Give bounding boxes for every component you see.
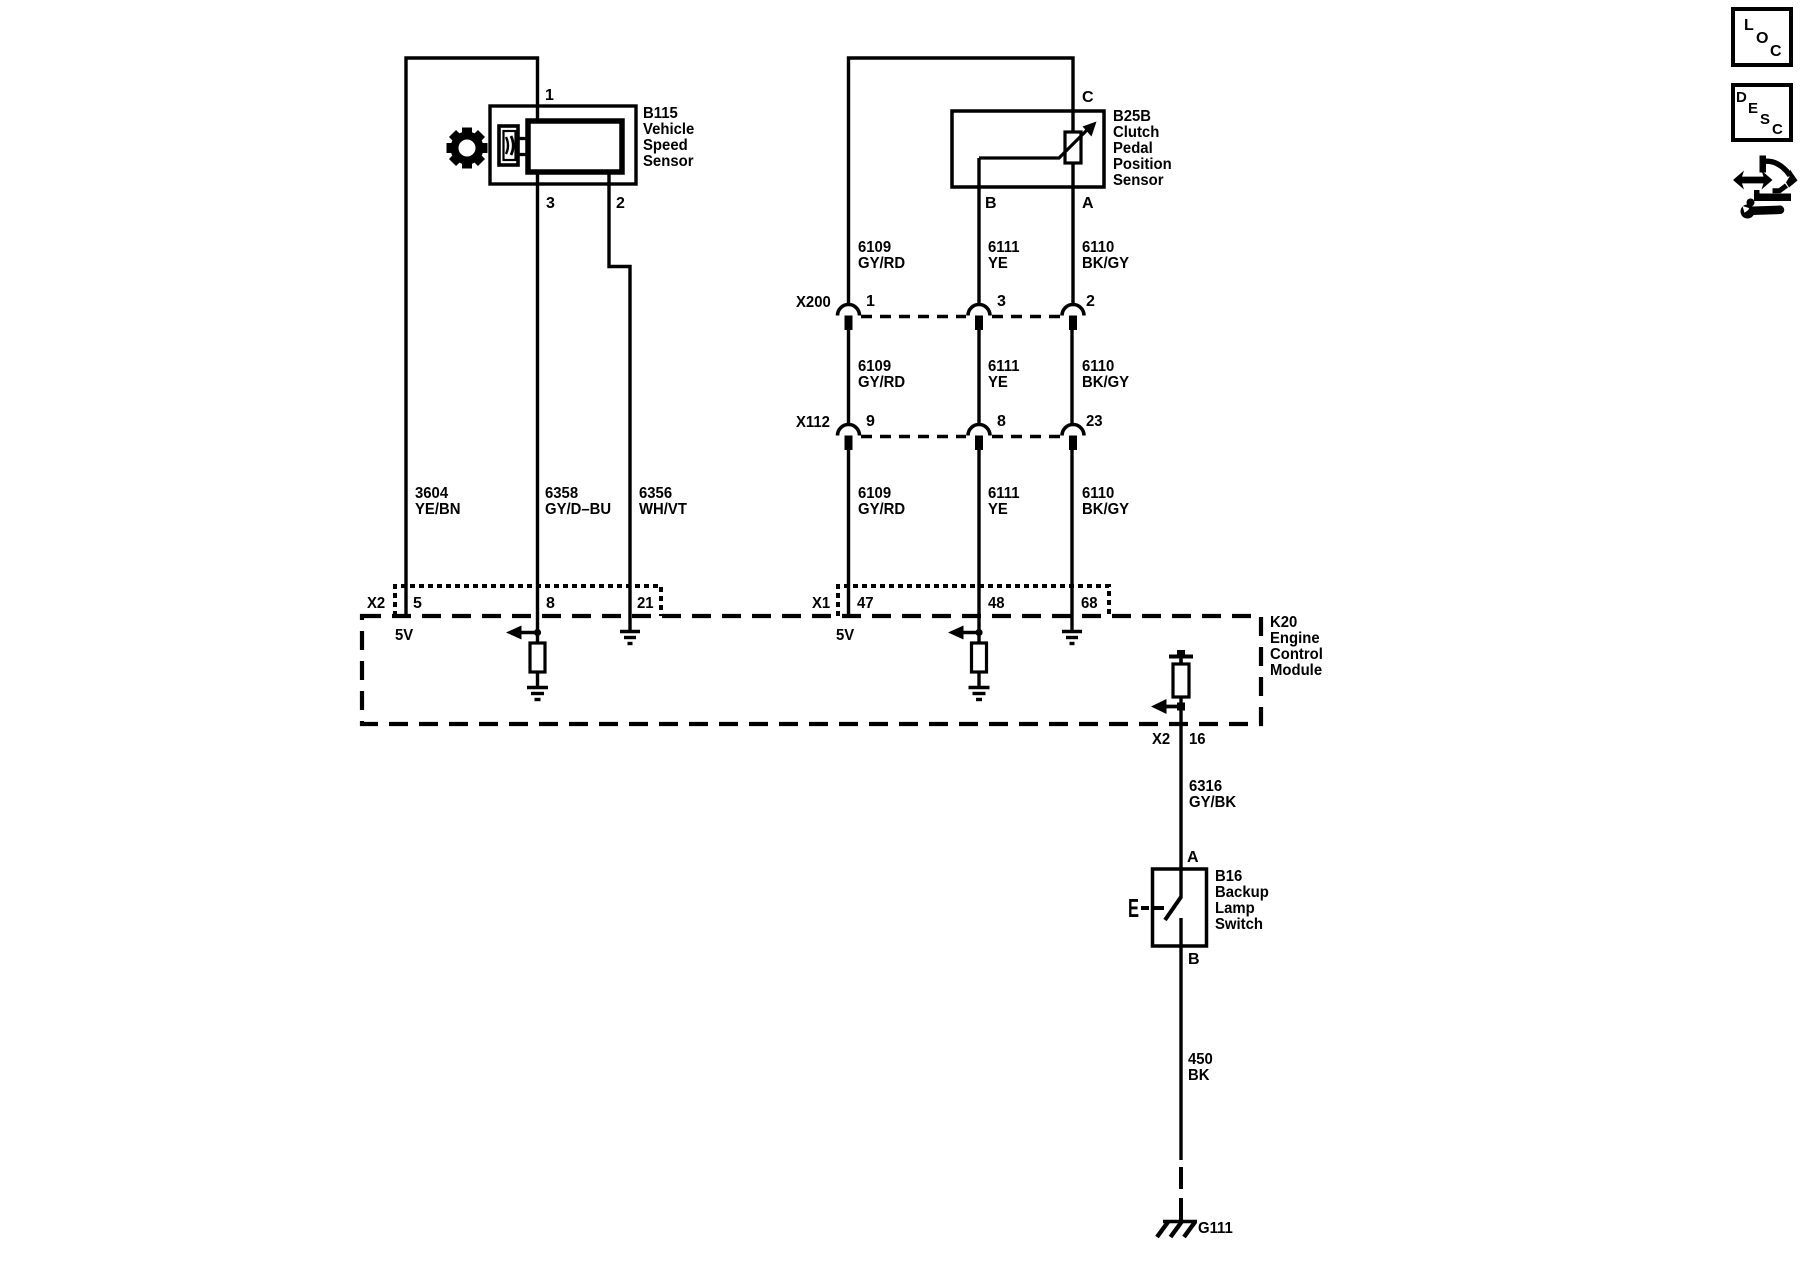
wire A below sensor [1071, 163, 1074, 304]
chassis ground G111 [1157, 1222, 1197, 1238]
label B115 Vehicle Speed Sensor [643, 105, 694, 170]
svg-text:C: C [1082, 89, 1094, 106]
label B25B Clutch Pedal Position Sensor [1113, 108, 1172, 189]
svg-text:B115: B115 [643, 105, 678, 122]
wire label 6111 YE (row 2) [988, 358, 1020, 391]
svg-text:Pedal: Pedal [1113, 140, 1153, 157]
svg-text:WH/VT: WH/VT [639, 501, 687, 518]
svg-text:6111: 6111 [988, 358, 1020, 375]
svg-text:YE: YE [988, 255, 1008, 272]
svg-text:21: 21 [637, 595, 654, 612]
svg-text:K20: K20 [1270, 614, 1297, 631]
wire 3 (B115 pin 3 to ECM X2-8) [536, 172, 539, 643]
wire 6110 segment X200-X112 [1070, 330, 1073, 424]
svg-text:Vehicle: Vehicle [643, 121, 694, 138]
svg-text:Module: Module [1270, 662, 1322, 679]
svg-text:6111: 6111 [988, 239, 1020, 256]
svg-text:X2: X2 [367, 595, 385, 612]
svg-text:Sensor: Sensor [643, 153, 694, 170]
svg-text:YE: YE [988, 501, 1008, 518]
ECM X2 connector strip (dotted) [395, 586, 661, 616]
svg-text:GY/D–BU: GY/D–BU [545, 501, 611, 518]
svg-text:2: 2 [1086, 293, 1095, 310]
signal arrow below resistor [1151, 699, 1185, 714]
svg-text:Sensor: Sensor [1113, 172, 1164, 189]
connector X200 pin 1 [838, 305, 860, 330]
svg-text:5V: 5V [395, 627, 413, 644]
svg-text:GY/RD: GY/RD [858, 501, 905, 518]
connector X112 pin 23 [1062, 425, 1084, 450]
svg-text:GY/RD: GY/RD [858, 255, 905, 272]
svg-text:B: B [1188, 951, 1200, 968]
wire: B115 supply loop (top-left) [406, 58, 538, 616]
svg-text:3: 3 [546, 195, 555, 212]
svg-text:5: 5 [413, 595, 422, 612]
wire label 6109 GY/RD (row 1) [858, 239, 905, 272]
svg-text:6109: 6109 [858, 485, 891, 502]
B25B sensor box [952, 111, 1104, 187]
svg-text:BK/GY: BK/GY [1082, 374, 1129, 391]
wire 6109 segment X112-X1 [847, 450, 850, 616]
resistor (backup lamp driver) [1173, 664, 1189, 697]
svg-text:Control: Control [1270, 646, 1323, 663]
wire label 6111 YE (row 1) [988, 239, 1020, 272]
wire label 6316 GY/BK [1189, 778, 1237, 811]
svg-text:16: 16 [1189, 731, 1206, 748]
svg-text:9: 9 [866, 413, 875, 430]
svg-text:8: 8 [997, 413, 1006, 430]
ground symbol at X2-21 [620, 616, 640, 644]
B16 Backup Lamp Switch box [1153, 869, 1207, 946]
connector X200 pin 3 [968, 305, 990, 330]
svg-text:8: 8 [546, 595, 555, 612]
ECM X1 connector strip (dotted) [838, 586, 1109, 616]
switch lower contact wire [1179, 918, 1182, 1160]
internal supply tap (backup lamp driver) [1169, 650, 1193, 664]
svg-text:YE: YE [988, 374, 1008, 391]
navigation icon: outline arrow [1754, 156, 1798, 202]
svg-text:6109: 6109 [858, 358, 891, 375]
wire resistor to ground (X1-48) [977, 672, 980, 686]
navigation icon: wrench [1741, 199, 1781, 219]
wire label 6109 GY/RD (row 3) [858, 485, 905, 518]
svg-text:GY/BK: GY/BK [1189, 794, 1237, 811]
svg-text:6316: 6316 [1189, 778, 1222, 795]
svg-text:C: C [1770, 43, 1782, 60]
svg-text:BK/GY: BK/GY [1082, 501, 1129, 518]
svg-text:B: B [985, 195, 997, 212]
wire 2 (B115 pin 2 to ECM X2-21) [609, 172, 630, 616]
svg-text:D: D [1736, 89, 1747, 106]
svg-text:6109: 6109 [858, 239, 891, 256]
gear icon [447, 128, 488, 169]
wire label 6111 YE (row 3) [988, 485, 1020, 518]
svg-text:1: 1 [866, 293, 875, 310]
actuator dash [1141, 906, 1149, 910]
signal arrow at X2-8 [506, 626, 541, 640]
svg-text:L: L [1744, 17, 1754, 34]
ground symbol at X1-68 [1062, 616, 1082, 644]
label B16 Backup Lamp Switch [1215, 868, 1269, 933]
svg-text:X200: X200 [796, 294, 831, 311]
svg-text:23: 23 [1086, 413, 1103, 430]
B115 sensing element box [499, 126, 518, 165]
signal arrow at X1-48 [948, 626, 983, 640]
K20 Engine Control Module dashed box [362, 616, 1261, 724]
svg-text:Switch: Switch [1215, 916, 1263, 933]
connector X200 pin 2 [1062, 305, 1084, 330]
LOC reference box [1733, 9, 1791, 65]
svg-text:2: 2 [616, 195, 625, 212]
svg-text:68: 68 [1081, 595, 1098, 612]
svg-text:6110: 6110 [1082, 239, 1114, 256]
svg-text:E: E [1128, 893, 1139, 923]
svg-text:Clutch: Clutch [1113, 124, 1159, 141]
wire label 450 BK [1188, 1051, 1213, 1084]
svg-text:G111: G111 [1198, 1220, 1233, 1237]
svg-text:X112: X112 [796, 414, 830, 431]
potentiometer wiper arrow [979, 122, 1097, 159]
ground symbol (X1-48) [969, 688, 990, 700]
DESC letters [1736, 89, 1783, 138]
pull-up resistor at X1-48 [972, 643, 987, 672]
svg-text:A: A [1082, 195, 1094, 212]
wire label 6110 BK/GY (row 2) [1082, 358, 1129, 391]
wire label 6110 BK/GY (row 3) [1082, 485, 1129, 518]
svg-text:X1: X1 [812, 595, 830, 612]
svg-text:E: E [1748, 100, 1758, 117]
svg-text:47: 47 [857, 595, 874, 612]
svg-text:3: 3 [997, 293, 1006, 310]
svg-text:A: A [1187, 849, 1199, 866]
svg-text:YE/BN: YE/BN [415, 501, 461, 518]
label K20 Engine Control Module [1270, 614, 1323, 679]
wire label 6356 WH/VT [639, 485, 687, 518]
svg-text:Position: Position [1113, 156, 1172, 173]
svg-text:GY/RD: GY/RD [858, 374, 905, 391]
wire 6111 segment X200-X112 [977, 330, 980, 424]
DESC reference box [1733, 85, 1791, 140]
connector X112 pin 8 [968, 425, 990, 450]
connector B115 outer box [490, 106, 636, 184]
navigation icon: double-headed arrow [1733, 171, 1773, 190]
svg-text:Lamp: Lamp [1215, 900, 1255, 917]
wire B inside sensor [977, 158, 980, 304]
wire 6111 segment X112-X1 [977, 450, 980, 643]
svg-text:6358: 6358 [545, 485, 578, 502]
wire: B25B supply loop (top-right) [849, 58, 1074, 304]
X112 harness dashes [861, 435, 1060, 439]
wire label 6110 BK/GY (row 1) [1082, 239, 1129, 272]
wire 6109 segment X200-X112 [847, 330, 850, 424]
svg-text:6110: 6110 [1082, 358, 1114, 375]
wire resistor to ground (X2-8) [536, 672, 539, 686]
splice dashes to ground [1179, 1167, 1183, 1220]
svg-text:B16: B16 [1215, 868, 1242, 885]
svg-text:3604: 3604 [415, 485, 448, 502]
stub wires between element and body [518, 139, 528, 155]
svg-text:6110: 6110 [1082, 485, 1114, 502]
svg-text:B25B: B25B [1113, 108, 1151, 125]
wire 6110 segment X112-X1 [1070, 450, 1073, 616]
ground symbol (X2-8) [527, 688, 548, 700]
potentiometer body [1065, 132, 1081, 163]
switch blade [1165, 897, 1181, 920]
svg-text:5V: 5V [836, 627, 854, 644]
B115 sensor body (inner rect) [528, 121, 622, 172]
svg-text:1: 1 [545, 87, 554, 104]
svg-text:C: C [1772, 121, 1783, 138]
wire X2-16 through ECM border [1179, 697, 1182, 898]
svg-text:S: S [1760, 111, 1770, 128]
svg-text:X2: X2 [1152, 731, 1170, 748]
wire label 6358 GY/D-BU [545, 485, 611, 518]
svg-text:450: 450 [1188, 1051, 1213, 1068]
svg-text:BK: BK [1188, 1067, 1210, 1084]
svg-text:O: O [1756, 30, 1768, 47]
connector X112 pin 9 [838, 425, 860, 450]
svg-text:Engine: Engine [1270, 630, 1320, 647]
wire label 6109 GY/RD (row 2) [858, 358, 905, 391]
svg-text:48: 48 [988, 595, 1005, 612]
svg-text:Speed: Speed [643, 137, 688, 154]
svg-text:BK/GY: BK/GY [1082, 255, 1129, 272]
svg-text:6356: 6356 [639, 485, 672, 502]
LOC letters [1744, 17, 1782, 60]
svg-text:Backup: Backup [1215, 884, 1269, 901]
svg-text:6111: 6111 [988, 485, 1020, 502]
wire label 3604 YE/BN [415, 485, 461, 518]
pull-up resistor at X2-8 [530, 643, 545, 672]
switch actuator stub [1154, 906, 1164, 910]
X200 harness dashes [861, 315, 1060, 319]
